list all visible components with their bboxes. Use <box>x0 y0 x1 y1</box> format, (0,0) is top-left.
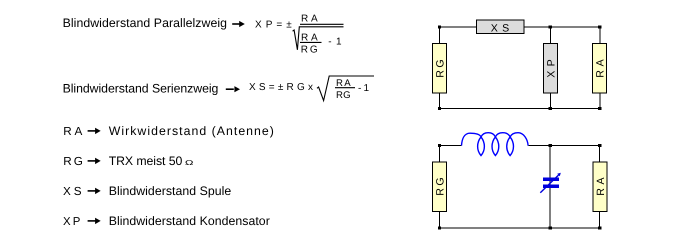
legend RG arrow <box>88 158 101 164</box>
svg-text:Blindwiderstand Serienzweig: Blindwiderstand Serienzweig <box>63 81 219 95</box>
junction top circuit bottom-middle <box>549 107 552 110</box>
formula XP fraction bar <box>300 23 344 25</box>
svg-text:R A: R A <box>63 125 82 138</box>
svg-text:- 1: - 1 <box>328 37 342 48</box>
junction top circuit bottom-left <box>438 107 441 110</box>
formula XP radical <box>293 27 344 50</box>
svg-text:R G: R G <box>435 59 447 77</box>
formula XS radical <box>317 76 374 101</box>
junction bottom circuit bottom-middle <box>549 226 552 229</box>
resistor RA (bottom circuit) <box>593 162 607 211</box>
svg-text:- 1: - 1 <box>358 83 369 94</box>
resistor RG (top circuit) <box>432 44 446 93</box>
arrow formula 1 <box>232 21 245 27</box>
svg-text:R G: R G <box>336 90 351 101</box>
svg-text:X P: X P <box>63 216 80 228</box>
wire top circuit right rail lower <box>599 93 601 108</box>
junction top circuit top-left <box>438 25 441 28</box>
resistor RG (bottom circuit) <box>433 162 447 211</box>
resistor RA (top circuit) <box>593 44 607 93</box>
arrow formula 2 <box>226 86 240 92</box>
legend RA arrow <box>88 128 101 134</box>
wire top circuit left rail lower <box>439 93 441 108</box>
svg-text:Blindwiderstand Parallelzweig: Blindwiderstand Parallelzweig <box>63 16 228 30</box>
svg-text:R A: R A <box>301 14 318 25</box>
wire bottom circuit top-right segment <box>529 144 600 146</box>
wire bottom circuit left rail lower <box>439 211 441 228</box>
wire bottom circuit top-left segment <box>440 144 462 146</box>
legend XP arrow <box>88 218 101 224</box>
wire bottom circuit middle rail <box>549 145 551 228</box>
variable capacitor C1 arrow <box>540 173 561 193</box>
svg-text:X P: X P <box>545 59 557 77</box>
junction top circuit top-middle <box>549 25 552 28</box>
wire bottom circuit bottom <box>440 227 600 229</box>
wire top circuit left rail upper <box>439 27 441 44</box>
formula XP inner fraction bar <box>300 41 322 43</box>
svg-text:X P = ±: X P = ± <box>255 19 292 30</box>
junction top circuit top-right <box>598 25 601 28</box>
junction bottom circuit top-left <box>438 144 441 147</box>
wire top circuit middle rail upper <box>549 27 551 44</box>
svg-text:X S: X S <box>491 22 509 34</box>
svg-text:R G: R G <box>63 155 83 168</box>
svg-text:TRX meist 50: TRX meist 50 <box>109 154 183 168</box>
svg-text:X S: X S <box>63 185 82 198</box>
wire top circuit bottom <box>440 108 600 110</box>
svg-text:R G: R G <box>301 44 318 55</box>
reactance XP (shunt element, top circuit) <box>544 44 558 93</box>
svg-text:R A: R A <box>594 58 606 77</box>
wire top circuit top-left segment <box>440 26 477 28</box>
junction bottom circuit top-middle <box>549 144 552 147</box>
wire bottom circuit right rail lower <box>599 211 601 228</box>
junction top circuit bottom-right <box>598 107 601 110</box>
legend XS arrow <box>88 188 101 194</box>
wire bottom circuit right rail upper <box>599 145 601 162</box>
junction bottom circuit bottom-right <box>598 226 601 229</box>
wire bottom circuit left rail upper <box>439 145 441 162</box>
svg-text:R A: R A <box>301 32 318 43</box>
wire top circuit middle rail lower <box>549 93 551 108</box>
svg-text:R G: R G <box>434 177 446 195</box>
svg-text:Wirkwiderstand (Antenne): Wirkwiderstand (Antenne) <box>109 124 274 138</box>
svg-text:Blindwiderstand Kondensator: Blindwiderstand Kondensator <box>109 214 270 228</box>
junction bottom circuit top-right <box>598 144 601 147</box>
svg-text:R A: R A <box>595 176 607 195</box>
inductor L1 (bottom circuit) <box>462 133 529 156</box>
variable capacitor C1 bottom plate <box>543 184 559 188</box>
variable capacitor C1 top plate <box>543 177 559 181</box>
junction bottom circuit bottom-left <box>438 226 441 229</box>
formula XS inner fraction bar <box>335 87 355 89</box>
wire top circuit top-right segment <box>524 26 600 28</box>
svg-text:Ω: Ω <box>185 160 194 167</box>
wire top circuit right rail upper <box>599 27 601 44</box>
reactance XS (series element, top circuit) <box>476 20 524 34</box>
svg-text:Blindwiderstand Spule: Blindwiderstand Spule <box>109 184 232 198</box>
svg-text:X S = ± R G x: X S = ± R G x <box>249 82 313 93</box>
